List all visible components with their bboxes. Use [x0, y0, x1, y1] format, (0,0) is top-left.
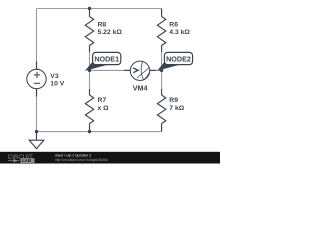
resistor R8 — [85, 9, 93, 53]
ground — [29, 132, 44, 149]
svg-text:LAB: LAB — [22, 158, 31, 163]
svg-text:5.22 kΩ: 5.22 kΩ — [98, 29, 123, 36]
junction dot node1 — [88, 69, 91, 72]
resistor R7 — [85, 89, 93, 132]
footer bar — [0, 152, 220, 164]
voltage source V3 — [27, 62, 46, 97]
resistor R6 — [157, 9, 165, 53]
svg-text:R8: R8 — [98, 22, 107, 29]
wire middle vertical lower (node to R7) — [89, 70, 91, 89]
node flag NODE1 — [85, 52, 121, 71]
junction dot bottom (R7 branch) — [88, 130, 91, 133]
footer logo arrow — [8, 160, 20, 162]
wire bottom horizontal — [37, 131, 162, 133]
wire middle horizontal right (VM4 to NODE2) — [150, 69, 162, 71]
resistor R9 — [157, 89, 165, 132]
junction dot top (R8 branch) — [88, 7, 91, 10]
wire middle vertical upper (R8 to node) — [89, 52, 91, 70]
junction dot bottom left (ground) — [35, 130, 38, 133]
node flag NODE2 — [157, 52, 192, 70]
svg-text:R9: R9 — [169, 97, 178, 104]
svg-text:R6: R6 — [169, 22, 178, 29]
svg-text:7 kΩ: 7 kΩ — [169, 105, 184, 112]
svg-text:10 V: 10 V — [50, 80, 64, 87]
svg-text:sheet / Lab 2 Question 3: sheet / Lab 2 Question 3 — [55, 154, 91, 158]
wire right vertical upper (R6 to node) — [161, 52, 163, 70]
wire middle horizontal left (NODE1 to VM4) — [90, 69, 131, 71]
wire left vertical (V3 branch) — [36, 9, 38, 132]
svg-text:R7: R7 — [98, 97, 107, 104]
svg-text:http://circuitlab.com/c7s45qp6: http://circuitlab.com/c7s45qp6z5638a — [55, 158, 108, 162]
voltmeter VM4 — [124, 61, 156, 80]
svg-text:NODE2: NODE2 — [166, 54, 191, 63]
svg-text:V3: V3 — [50, 73, 59, 80]
svg-text:4.3 kΩ: 4.3 kΩ — [169, 29, 190, 36]
junction dot node2 — [160, 69, 163, 72]
wire top horizontal — [37, 8, 162, 10]
svg-text:VM4: VM4 — [133, 84, 148, 93]
wire right vertical lower (node to R9) — [161, 70, 163, 89]
svg-text:NODE1: NODE1 — [94, 54, 119, 63]
svg-text:x Ω: x Ω — [98, 105, 110, 112]
footer logo LAB — [21, 158, 35, 163]
